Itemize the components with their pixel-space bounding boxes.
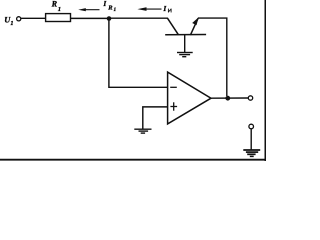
ground (transistor base): [177, 53, 193, 57]
svg-text:R: R: [107, 5, 113, 12]
op-amp U2: [168, 72, 211, 124]
svg-text:1: 1: [58, 6, 61, 13]
current arrow I_i: [137, 7, 161, 11]
wire R1 to node A: [71, 17, 110, 19]
wire op-amp output: [211, 97, 249, 99]
page border bottom: [0, 159, 266, 161]
svg-text:1: 1: [114, 7, 117, 13]
label I_i: [162, 4, 171, 13]
right lead (emitter): [190, 18, 198, 35]
page border right: [264, 0, 266, 161]
current arrow I_R1: [78, 8, 99, 11]
label I_R1: [102, 0, 116, 13]
ground (output reference): [243, 150, 260, 156]
resistor R1: [46, 14, 71, 22]
label R1: [51, 0, 61, 13]
wire reference terminal to ground: [250, 129, 252, 150]
wire input terminal to R1: [21, 17, 46, 19]
node B output junction: [225, 96, 230, 101]
output terminal: [248, 96, 252, 100]
base bar: [165, 34, 206, 36]
label U1: [4, 15, 13, 27]
output reference terminal: [249, 124, 254, 129]
transistor Q1: [165, 17, 206, 35]
left lead: [167, 18, 178, 35]
svg-text:1: 1: [10, 20, 13, 27]
wire transistor emitter to right rail: [198, 18, 227, 96]
ground (non-inverting input): [134, 129, 151, 133]
plus symbol: [170, 106, 177, 108]
svg-text:R: R: [51, 0, 58, 9]
minus symbol: [170, 86, 177, 88]
emitter arrowhead: [192, 17, 198, 25]
input terminal U1: [17, 17, 21, 21]
node A junction dot: [107, 16, 112, 21]
wire transistor base to ground: [184, 35, 186, 53]
wire node A down to inverting input: [109, 19, 168, 88]
wire non-inverting input: [143, 107, 168, 129]
wire node A to transistor: [109, 17, 168, 19]
